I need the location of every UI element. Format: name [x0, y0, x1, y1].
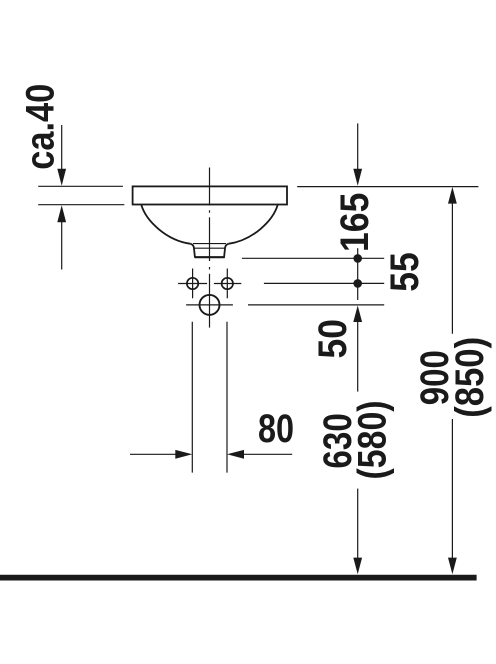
svg-text:(850): (850)	[447, 337, 492, 418]
dim 80 right arrowhead	[227, 450, 244, 459]
chain dot at drain height	[353, 254, 362, 263]
dim 630 shaft upper	[357, 321, 359, 392]
dim 80 right leader	[243, 453, 292, 455]
dim ca.40 upper leader	[61, 125, 63, 170]
chain dot at faucet hole height	[353, 279, 362, 288]
svg-text:80: 80	[258, 406, 294, 451]
faucet hole right crosshair	[214, 269, 241, 299]
counter top extension line right	[297, 186, 478, 188]
drain height extension line (to dim chain)	[242, 257, 384, 259]
dim ca.40 lower arrowhead	[57, 205, 66, 222]
drain bottom edge	[195, 256, 225, 258]
rim bottom extension line left	[38, 204, 124, 206]
mounting hole large	[200, 295, 220, 315]
svg-text:165: 165	[333, 193, 377, 252]
drain flange lower line	[194, 247, 225, 249]
washbasin rim / counter edge	[133, 186, 287, 204]
svg-text:50: 50	[311, 319, 355, 358]
mounting hole crosshair	[186, 304, 233, 306]
svg-text:ca.40: ca.40	[17, 84, 62, 170]
svg-text:(580): (580)	[349, 400, 394, 479]
hole spacing extension line left (80 dim)	[191, 322, 193, 473]
drain flange line	[193, 243, 226, 245]
dim 165 leader from top	[357, 123, 359, 169]
dim 900 shaft upper	[451, 202, 453, 333]
dim 900 down arrowhead at floor	[448, 558, 457, 575]
dim 630 shaft lower	[357, 489, 359, 560]
hole spacing extension line right (80 dim)	[226, 322, 228, 473]
washbasin bowl	[141, 205, 277, 244]
faucet hole left	[187, 278, 198, 289]
dim 50 up arrowhead	[353, 306, 362, 323]
faucet hole right	[222, 278, 233, 289]
dim ca.40 lower leader	[61, 222, 63, 270]
faucet hole height extension line	[264, 282, 384, 284]
svg-text:55: 55	[383, 252, 427, 292]
dim chain line through dots	[357, 248, 359, 300]
floor line	[0, 575, 477, 581]
dim 900 up arrowhead at counter	[448, 187, 457, 204]
dim 630 down arrowhead at floor	[353, 558, 362, 575]
drain outlet	[191, 244, 229, 257]
dim ca.40 upper arrowhead	[57, 169, 66, 186]
mounting hole height extension line	[248, 304, 384, 306]
faucet hole left crosshair	[178, 269, 207, 299]
dim 165 down arrowhead	[353, 169, 362, 186]
dim 900 shaft lower	[451, 419, 453, 560]
dim 80 left arrowhead	[175, 450, 192, 459]
counter top extension line left	[38, 185, 123, 187]
dim 80 left leader	[130, 453, 177, 455]
vertical centerline of basin (dash-dot)	[209, 168, 211, 328]
